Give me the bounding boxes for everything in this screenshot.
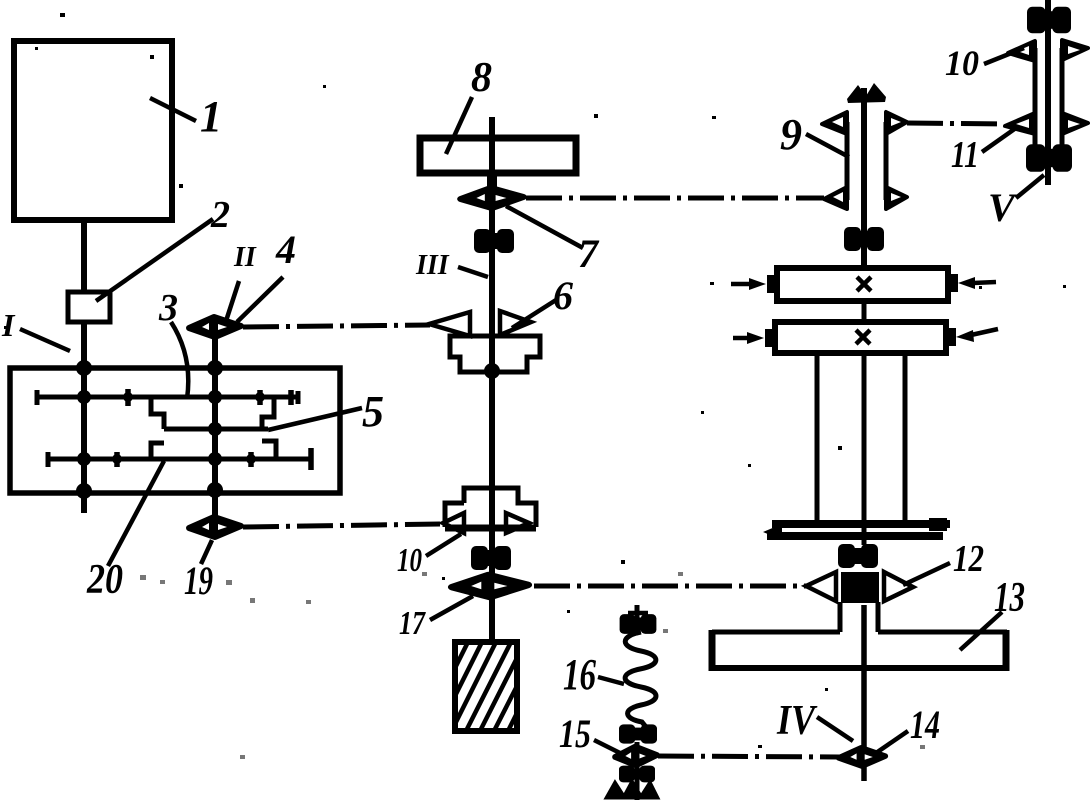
- svg-text:11: 11: [951, 134, 979, 176]
- table plate lower: [767, 532, 943, 540]
- centerline 7 to 9: [526, 196, 824, 201]
- cone pulley 10 belt arrow left: [443, 513, 464, 533]
- sleeve V bottom bevel left: [1005, 113, 1035, 134]
- leader label II: [226, 281, 239, 321]
- centerline 17 to 12: [534, 584, 806, 589]
- bevel gear 12 right cone: [884, 572, 913, 601]
- leader label 5: [268, 408, 362, 430]
- sleeve 9 right line: [884, 122, 889, 200]
- sleeve 9 top bevel left: [822, 112, 847, 134]
- roller 2 right journal: [946, 328, 956, 346]
- cone pulley 10 belt arrow right: [506, 513, 529, 533]
- leader label 17: [430, 596, 473, 620]
- claw clutch left: [151, 397, 164, 459]
- cone pulley 10 bottom rim: [445, 525, 536, 532]
- svg-text:2: 2: [210, 194, 230, 236]
- sleeve 9 left line: [845, 122, 850, 200]
- end cap tick: [35, 390, 40, 405]
- roller 2 right arrow: [971, 329, 998, 335]
- svg-text:V: V: [988, 185, 1018, 230]
- svg-text:8: 8: [471, 55, 492, 101]
- leader label 3: [171, 322, 188, 399]
- leader label IV: [817, 717, 853, 741]
- bevel gear on shaft II bottom: [189, 517, 241, 537]
- roller 1: [777, 268, 948, 301]
- roller 1 cross: [857, 277, 871, 291]
- table plate left arrow tip: [763, 524, 782, 540]
- feed shaft vertical: [861, 88, 867, 268]
- leader label 9: [806, 134, 849, 157]
- scan smudge: [140, 572, 925, 759]
- roller 2: [775, 322, 946, 353]
- gear tick: [248, 452, 254, 467]
- sleeve V right line: [1060, 48, 1065, 148]
- svg-text:1: 1: [200, 92, 222, 141]
- coupling above ground: [619, 766, 655, 783]
- svg-text:12: 12: [953, 538, 984, 580]
- feed shaft top arrow: [847, 83, 886, 103]
- sleeve 9 bottom bevel left: [824, 187, 847, 209]
- sleeve V top bevel right: [1062, 40, 1088, 60]
- leader label III: [458, 267, 488, 277]
- shaft I upper segment: [81, 219, 87, 293]
- gear tick: [257, 390, 263, 405]
- svg-text:19: 19: [184, 558, 213, 603]
- svg-text:5: 5: [362, 387, 384, 436]
- gear tick: [114, 452, 120, 467]
- frame right rod: [903, 353, 908, 521]
- leader label 12: [903, 563, 950, 585]
- leader label 11: [982, 128, 1016, 152]
- gear shaft lower in gearbox: [47, 457, 313, 462]
- rack bar 13 stem left: [838, 602, 843, 632]
- spring rod bottom stub: [635, 742, 640, 800]
- svg-text:17: 17: [399, 605, 427, 642]
- svg-text:6: 6: [553, 273, 573, 318]
- belt centerline II to cone 10: [243, 524, 440, 527]
- bevel gear 17: [452, 575, 527, 597]
- spring rod top tick: [628, 611, 648, 616]
- spring rod top stub: [635, 605, 640, 633]
- roller 1 right journal: [948, 274, 958, 292]
- sleeve 9 bottom bevel right: [886, 187, 907, 209]
- centerline 9 to V shaft: [907, 123, 1004, 124]
- rack bar 13 stem right: [876, 602, 881, 632]
- gear shaft upper in gearbox: [36, 395, 299, 400]
- gear tick: [125, 389, 131, 406]
- svg-text:16: 16: [563, 650, 596, 699]
- shaft V: [1045, 0, 1051, 185]
- speed box 2: [68, 292, 110, 322]
- leader label 20: [108, 461, 164, 566]
- end cap tick: [296, 391, 301, 404]
- leader label 16: [598, 677, 624, 684]
- table plate upper: [772, 520, 950, 528]
- sleeve V top bevel left: [1008, 41, 1035, 61]
- frame center rod: [862, 353, 867, 545]
- motor 1: [14, 41, 172, 220]
- svg-text:10: 10: [945, 43, 979, 83]
- bevel gear 14: [839, 748, 886, 766]
- sleeve V left line: [1033, 48, 1038, 148]
- belt centerline II to cone 6: [243, 325, 430, 327]
- shaft II: [212, 339, 218, 516]
- leader label 4: [237, 277, 283, 322]
- centerline 15 to 14: [658, 756, 841, 757]
- svg-text:3: 3: [158, 287, 178, 329]
- junction blobs shaft I: [76, 360, 92, 499]
- leader label 10 top right: [984, 48, 1024, 64]
- roller 1 left arrow: [731, 282, 752, 287]
- svg-text:9: 9: [780, 110, 802, 159]
- table plate right end block: [929, 518, 947, 531]
- cone pulley 10 body: [445, 488, 536, 527]
- svg-text:III: III: [415, 250, 450, 281]
- leader label V: [1016, 175, 1044, 198]
- bevel gear 12 left cone: [806, 572, 836, 601]
- coupling below spring: [619, 724, 657, 743]
- gearbox housing: [10, 368, 340, 493]
- leader label I: [20, 329, 70, 351]
- cone pulley 6 body: [450, 336, 540, 372]
- svg-text:14: 14: [910, 702, 940, 747]
- shaft III: [489, 117, 495, 641]
- svg-text:7: 7: [578, 231, 600, 276]
- end cap tick: [46, 452, 51, 467]
- bevel gear 7: [461, 188, 523, 208]
- rack bar 13 right cap: [1003, 630, 1010, 671]
- sleeve V bottom bevel right: [1062, 113, 1088, 134]
- leader label 8: [446, 97, 472, 154]
- sliding gear shaft middle: [164, 427, 268, 432]
- coupling on feed shaft: [844, 227, 884, 251]
- roller 2 cross: [856, 330, 870, 344]
- shaft III hub above bevel 7: [487, 172, 497, 193]
- roller 1 right arrow: [973, 282, 996, 283]
- leader label 6: [512, 300, 556, 328]
- shaft I middle segment: [81, 322, 87, 513]
- rack bar 13 bottom edge: [712, 665, 1007, 671]
- claw clutch right: [262, 397, 276, 459]
- bevel gear 12 center: [841, 572, 879, 603]
- svg-text:20: 20: [86, 557, 123, 603]
- leader label 15: [594, 740, 620, 753]
- svg-text:II: II: [233, 242, 257, 273]
- bevel gear on shaft II top: [189, 317, 241, 337]
- wheel 8: [420, 138, 576, 173]
- sleeve 9 top bevel right: [886, 112, 907, 134]
- coupling below plate: [838, 544, 878, 568]
- gear hub blobs: [112, 392, 265, 464]
- coupling bottom shaft V: [1026, 144, 1072, 172]
- svg-text:10: 10: [397, 542, 422, 579]
- rack bar 13 top edge: [712, 630, 1007, 635]
- blob under cone 6: [484, 363, 500, 379]
- coupling top shaft V: [1027, 7, 1071, 33]
- cone pulley 6 belt arrow right: [500, 311, 531, 335]
- roller 2 left journal: [765, 329, 775, 347]
- svg-text:IV: IV: [776, 698, 817, 744]
- roller 1 left journal: [767, 275, 777, 293]
- junction blobs shaft II: [207, 360, 223, 498]
- leader label 1: [150, 98, 196, 121]
- coupling on shaft III: [474, 229, 514, 253]
- svg-text:I: I: [1, 307, 16, 343]
- roller connector shaft: [862, 301, 867, 322]
- shaft IV: [861, 605, 867, 781]
- bevel gear 15: [615, 747, 658, 766]
- rack bar 13 left cap: [709, 630, 716, 671]
- frame left rod: [815, 353, 820, 521]
- coupling below cone 10: [471, 546, 511, 570]
- spring 16: [625, 632, 656, 727]
- leader label 14: [876, 731, 908, 753]
- svg-text:15: 15: [559, 711, 591, 756]
- leader label 2: [96, 219, 213, 301]
- leader label 10: [426, 534, 461, 556]
- end cap tick: [308, 448, 314, 470]
- svg-text:4: 4: [275, 227, 296, 272]
- weight: [455, 642, 517, 731]
- leader label 19: [201, 540, 212, 564]
- gear tick: [288, 390, 294, 405]
- roller 2 left arrow: [733, 336, 750, 341]
- leader label 13: [960, 612, 1002, 650]
- leader label 7: [506, 206, 583, 248]
- spring top anchor coupling: [620, 614, 657, 634]
- cone pulley 6 belt arrow left: [429, 312, 470, 336]
- ground anchor: [606, 781, 658, 798]
